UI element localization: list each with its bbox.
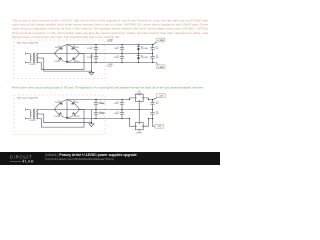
junction dots (lower)	[91, 99, 153, 124]
capacitor C4 (upper)	[120, 54, 124, 63]
wire: +V raw rail (upper)	[67, 44, 154, 46]
capacitor C1 (upper)	[94, 45, 98, 54]
bridge diode D4 (upper)	[72, 57, 74, 60]
junction dots (upper)	[91, 44, 153, 72]
diode bridge outline D1-D4 (upper)	[55, 45, 80, 63]
ground symbol (lower)	[89, 123, 94, 127]
zener diode D6 (upper)	[137, 54, 140, 63]
bridge diode D3 (upper)	[60, 57, 62, 60]
capacitor C8 (lower)	[150, 110, 154, 119]
bridge diode D2 (upper)	[72, 47, 74, 50]
wire: -V raw rail (upper)	[67, 62, 156, 64]
junction: bridge bottom vertex (upper)	[66, 61, 68, 63]
junction: bridge bottom vertex (lower)	[66, 117, 68, 119]
net flag -15V (lower)	[153, 125, 155, 127]
wire: 0V mid rail (upper)	[80, 53, 153, 55]
dashed PCB boundary box (lower)	[14, 95, 105, 135]
zener diode D5 (upper)	[137, 45, 140, 54]
wire: center tap to ground (upper)	[37, 58, 92, 71]
net flag +15V (lower)	[154, 98, 157, 100]
voltage regulator U1 LM7815	[130, 94, 149, 109]
wire: -15V drop to flag (lower)	[153, 119, 155, 127]
capacitor C5 (lower)	[120, 100, 124, 110]
wire: center tap to ground (lower)	[37, 114, 92, 123]
net flag +V RAW (upper)	[154, 42, 157, 45]
wire: secondary top tap to bridge AC1 (lower)	[37, 109, 55, 111]
capacitor C8 (upper)	[150, 54, 154, 63]
capacitor C7 (upper)	[150, 45, 154, 54]
dashed PCB boundary box (upper)	[14, 40, 105, 79]
capacitor C2 (upper)	[94, 54, 98, 63]
transformer T1 (upper)	[26, 53, 38, 64]
voltage regulator U2 LM7915	[130, 110, 149, 130]
bridge diode D4 (lower)	[72, 112, 74, 115]
bridge diode D1 (upper)	[60, 47, 62, 50]
net flag -V RAW (upper)	[156, 63, 158, 65]
diode bridge outline D1-D4 (lower)	[55, 100, 80, 119]
wire: +V raw rail (lower)	[67, 99, 154, 101]
capacitor C2 (lower)	[94, 110, 98, 119]
bridge diode D1 (lower)	[60, 102, 62, 105]
wire: secondary bottom tap to bridge AC2 (lower)	[37, 110, 84, 128]
wire: mid rail riser (upper)	[91, 54, 93, 72]
wire: 0V mid rail (lower)	[80, 109, 153, 111]
bridge diode D2 (lower)	[72, 102, 74, 105]
wire: secondary bottom tap to bridge AC2 (upper)	[37, 54, 84, 70]
capacitor C1 (lower)	[94, 100, 98, 110]
wire: secondary top tap to bridge AC1 (upper)	[37, 53, 55, 55]
ground symbol (upper)	[89, 71, 94, 75]
transformer T1 (lower)	[26, 109, 38, 120]
wire: -V raw rail (lower)	[67, 118, 154, 120]
capacitor C6 (lower)	[120, 110, 124, 119]
capacitor C3 (upper)	[120, 45, 124, 54]
wire: mid rail riser (lower)	[91, 110, 93, 123]
capacitor C7 (lower)	[150, 100, 154, 110]
bridge diode D3 (lower)	[60, 112, 62, 115]
